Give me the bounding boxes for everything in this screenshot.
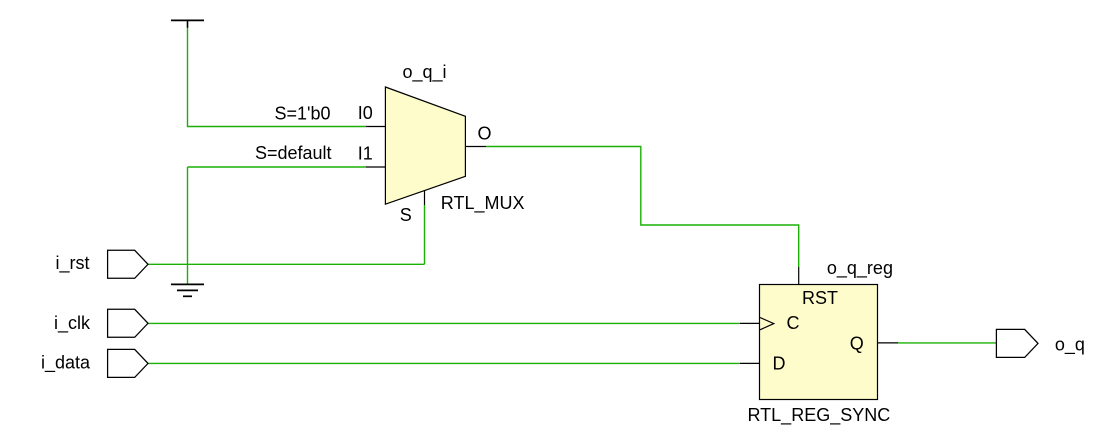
svg-text:i_clk: i_clk xyxy=(54,313,91,334)
svg-text:I0: I0 xyxy=(358,103,373,123)
svg-text:S: S xyxy=(400,205,412,225)
svg-text:I1: I1 xyxy=(358,143,373,163)
svg-text:i_rst: i_rst xyxy=(56,253,90,274)
svg-text:O: O xyxy=(478,124,492,144)
svg-text:D: D xyxy=(773,354,786,374)
svg-text:S=default: S=default xyxy=(255,143,332,163)
svg-text:RTL_MUX: RTL_MUX xyxy=(441,193,525,214)
svg-text:RST: RST xyxy=(802,288,838,308)
svg-text:o_q_i: o_q_i xyxy=(403,62,447,83)
svg-text:i_data: i_data xyxy=(41,353,91,374)
svg-text:o_q_reg: o_q_reg xyxy=(827,258,893,279)
svg-text:Q: Q xyxy=(850,333,864,353)
svg-text:RTL_REG_SYNC: RTL_REG_SYNC xyxy=(748,405,891,426)
svg-text:C: C xyxy=(787,313,800,333)
svg-text:o_q: o_q xyxy=(1055,335,1085,356)
svg-text:S=1'b0: S=1'b0 xyxy=(275,103,331,123)
